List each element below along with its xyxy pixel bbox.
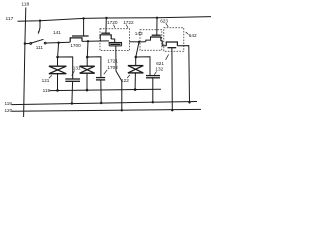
svg-text:111: 111 bbox=[36, 45, 44, 50]
svg-text:623: 623 bbox=[160, 18, 168, 23]
svg-text:121: 121 bbox=[42, 78, 50, 83]
inverter 1720 lower transistor bbox=[109, 42, 122, 44]
svg-text:122: 122 bbox=[121, 78, 129, 83]
inverter 1722 transistor bbox=[152, 34, 161, 36]
capacitor 131 bbox=[65, 79, 80, 103]
wire switch control lead with arrow bbox=[39, 21, 40, 32]
capacitor 1702 bbox=[96, 78, 105, 103]
label 1702 with leader bbox=[104, 65, 118, 75]
svg-text:1721: 1721 bbox=[107, 58, 118, 63]
liquid crystal element 121 bbox=[49, 57, 66, 90]
svg-text:642: 642 bbox=[189, 33, 197, 38]
wire capacitor line bbox=[12, 102, 198, 105]
wire 117 horizontal line bbox=[18, 17, 212, 22]
node 141 junction dot bbox=[57, 42, 59, 44]
liquid crystal element (second pixel) bbox=[80, 57, 95, 90]
wire 1700 drain to inverter input bbox=[82, 40, 109, 43]
node 143 branch to third pixel bbox=[136, 42, 139, 57]
svg-text:120: 120 bbox=[5, 108, 13, 113]
transistor 621 bbox=[166, 42, 177, 46]
transistor 1700 gate lead bbox=[82, 17, 84, 19]
wire 623 output down to line bbox=[177, 46, 189, 103]
inverter box 1720 dashed bbox=[100, 29, 130, 51]
svg-text:1702: 1702 bbox=[107, 65, 118, 70]
inverter 1722 transistor gate lead bbox=[156, 17, 158, 19]
svg-text:141: 141 bbox=[53, 30, 61, 35]
svg-text:119: 119 bbox=[43, 88, 51, 93]
wire input to upper transistor bbox=[100, 39, 102, 41]
label 121 with leader bbox=[42, 75, 52, 83]
label 131 with leader bbox=[72, 65, 81, 76]
node junction on 117 for switch control bbox=[39, 20, 41, 22]
wire transistor 621 gate to line 120 bbox=[171, 48, 173, 110]
svg-text:117: 117 bbox=[6, 16, 14, 22]
svg-text:1720: 1720 bbox=[107, 20, 118, 25]
svg-text:132: 132 bbox=[155, 67, 163, 72]
svg-text:118: 118 bbox=[21, 2, 29, 8]
inverter 1720 upper transistor bbox=[101, 32, 110, 34]
capacitor 132 bbox=[146, 76, 160, 103]
transistor 1700 bbox=[72, 35, 89, 37]
node junction at 1700 output bbox=[87, 40, 89, 42]
label 623 with leader bbox=[160, 18, 168, 27]
node junction on 118 line bbox=[24, 42, 26, 44]
wire 1721 output down bbox=[116, 46, 122, 110]
wire inverter output node 143 bbox=[130, 41, 146, 43]
svg-text:143: 143 bbox=[135, 31, 143, 36]
junction dots on 119 bbox=[56, 89, 59, 92]
wire 120 bottom line bbox=[12, 109, 202, 111]
label 642 with leader bbox=[186, 32, 197, 38]
wire 119 counter electrode line bbox=[50, 89, 161, 90]
junction dots on capacitor line bbox=[71, 102, 73, 104]
label 122 with leader bbox=[121, 75, 130, 83]
svg-text:119: 119 bbox=[5, 101, 13, 106]
wire switch to transistor 1700 bbox=[46, 41, 70, 44]
inverter box 1722 dashed bbox=[140, 30, 162, 50]
switch 111 bbox=[25, 43, 30, 45]
inverter 1720 upper transistor gate lead bbox=[105, 17, 107, 19]
wire step upper to lower transistor bbox=[111, 39, 115, 43]
liquid crystal element 122 bbox=[128, 57, 143, 90]
svg-text:1722: 1722 bbox=[123, 20, 134, 25]
svg-text:621: 621 bbox=[156, 61, 164, 66]
label 132 with leader bbox=[154, 67, 163, 75]
node 2 branch wire bbox=[86, 41, 89, 57]
clocked inverter box 623 dashed bbox=[164, 28, 184, 52]
node 141 pixel branch wire bbox=[58, 43, 59, 57]
wire 1722 output to box 623 bbox=[161, 41, 167, 46]
wire 118 vertical signal line bbox=[24, 8, 26, 118]
label 621 with leader bbox=[156, 54, 168, 65]
svg-text:1700: 1700 bbox=[70, 43, 81, 48]
